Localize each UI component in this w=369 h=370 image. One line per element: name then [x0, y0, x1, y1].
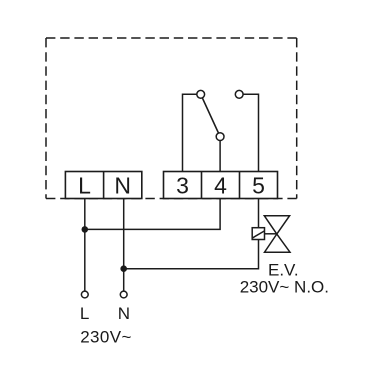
coil link to valve	[265, 233, 277, 235]
switch common circle (pole 4)	[216, 133, 224, 141]
wire terminal5 down to valve coil	[258, 199, 260, 228]
switch contact circle (pole 5)	[235, 90, 243, 98]
terminal block 3 4 5	[164, 172, 278, 199]
svg-text:L: L	[78, 173, 91, 199]
switch arm	[201, 94, 220, 136]
mains terminal circle N	[120, 291, 127, 298]
svg-text:5: 5	[252, 173, 265, 199]
wire L down to mains	[84, 199, 86, 292]
svg-text:230V~ N.O.: 230V~ N.O.	[240, 278, 329, 297]
valve EV bowtie symbol	[264, 216, 290, 253]
solenoid coil box	[252, 228, 264, 240]
wire terminal5 to switch contact	[239, 94, 258, 171]
svg-text:L: L	[80, 304, 89, 323]
wire L junction to terminal 4	[85, 199, 220, 230]
wire N down to mains	[123, 199, 125, 292]
thermostat body dashed outline	[46, 38, 297, 199]
wire terminal4 to switch common	[219, 137, 221, 172]
wire N junction to valve	[124, 240, 259, 269]
wire terminal3 to switch contact	[183, 94, 201, 171]
svg-text:230V~: 230V~	[80, 327, 132, 346]
mains terminal circle L	[81, 291, 88, 298]
switch contact circle (pole 3)	[197, 90, 205, 98]
junction dot on L wire	[82, 226, 89, 233]
svg-text:N: N	[118, 304, 130, 323]
svg-text:3: 3	[176, 173, 189, 199]
junction dot on N wire	[120, 265, 127, 272]
svg-text:N: N	[114, 173, 131, 199]
svg-text:4: 4	[214, 173, 227, 199]
terminal block L N	[65, 172, 141, 199]
